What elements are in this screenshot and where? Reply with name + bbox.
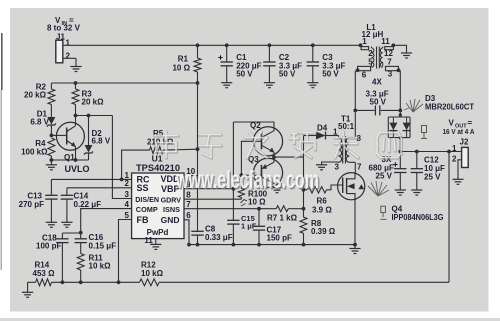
svg-text:6: 6 bbox=[186, 211, 191, 220]
svg-text:6.8 V: 6.8 V bbox=[30, 118, 49, 127]
svg-text:6: 6 bbox=[362, 71, 367, 80]
watermark glyph 1 bbox=[154, 132, 179, 159]
watermark glyph 2 bbox=[199, 135, 222, 159]
wire COMP pin4 bbox=[81, 209, 132, 233]
bottom scan band bbox=[0, 318, 500, 321]
svg-text:25 V: 25 V bbox=[424, 173, 441, 182]
Q3 emitter diag bbox=[262, 162, 275, 169]
ground at L1 pin 11 bbox=[401, 53, 412, 58]
wire J1 pin2 down bbox=[75, 58, 77, 66]
watermark chinese glyph row bbox=[154, 132, 402, 159]
Q3 base bar bbox=[261, 165, 263, 181]
wire base to Q3 bbox=[241, 174, 261, 176]
node VIN/R1 bbox=[196, 43, 200, 47]
resistor R12 bbox=[140, 279, 160, 286]
L1 core line 1 bbox=[376, 47, 378, 69]
node D3 top bbox=[399, 113, 402, 116]
node C8/bus bbox=[196, 243, 200, 247]
capacitor C17 bbox=[258, 209, 260, 227]
annotation arrow at R100 bbox=[241, 200, 248, 204]
svg-text:10 Ω: 10 Ω bbox=[248, 198, 266, 207]
wire D4/emitter/gate column bbox=[303, 136, 305, 209]
L1 top-left terminal bbox=[385, 47, 394, 50]
node Q2/Q3 bases bbox=[240, 173, 244, 177]
wire bus R12 to Vout riser bbox=[159, 281, 449, 283]
wire UVLO emitter bus bbox=[51, 159, 88, 161]
svg-text:0.39 Ω: 0.39 Ω bbox=[311, 227, 336, 236]
Q2 base bar bbox=[261, 133, 263, 149]
Q4 channel bar bbox=[346, 178, 348, 194]
capacitor C2 bbox=[268, 45, 270, 62]
wire Q1 base bbox=[51, 134, 66, 136]
resistor R11 bbox=[77, 254, 84, 271]
L1 phase dot pin6 bbox=[356, 68, 360, 72]
svg-text:FB: FB bbox=[137, 215, 149, 225]
wire Q2 collector up bbox=[273, 122, 275, 131]
resistor R1 bbox=[197, 45, 199, 58]
svg-text:270 pF: 270 pF bbox=[19, 200, 44, 209]
svg-text:DIS/EN: DIS/EN bbox=[135, 196, 159, 204]
ground at C13 bbox=[46, 222, 57, 227]
svg-text:7: 7 bbox=[387, 58, 392, 67]
wire R1 to VDD node bbox=[197, 83, 199, 149]
svg-text:0.22 μF: 0.22 μF bbox=[74, 200, 102, 209]
svg-text:10 kΩ: 10 kΩ bbox=[141, 269, 164, 278]
wire Q1 collector to DIS riser bbox=[76, 115, 113, 117]
node Q2/Q3 emitters bbox=[272, 155, 276, 159]
svg-text:3: 3 bbox=[335, 163, 340, 172]
capacitor C18 bbox=[61, 233, 63, 239]
wire VIN top rail bbox=[67, 44, 361, 46]
svg-text:16 V at 4 A: 16 V at 4 A bbox=[443, 127, 475, 136]
Q1 collector diag bbox=[67, 126, 76, 132]
wire UVLO sense rail bbox=[51, 82, 197, 84]
svg-text:0.15 μF: 0.15 μF bbox=[89, 241, 117, 250]
resistor R7 bbox=[276, 206, 288, 212]
node R7/R8 bbox=[302, 207, 306, 211]
transistor Q3 bbox=[253, 158, 282, 187]
node C15/bus bbox=[232, 243, 236, 247]
svg-text:MBR20L60CT: MBR20L60CT bbox=[425, 102, 474, 111]
annotation starburst at D3 bbox=[404, 99, 423, 112]
Q1 base bar bbox=[66, 128, 68, 145]
Q2 emitter diag bbox=[262, 145, 275, 152]
wire L1 pin11 to ground bbox=[393, 45, 406, 53]
svg-text:100 kΩ: 100 kΩ bbox=[21, 148, 48, 157]
wire VBP riser to Q2 collector rail bbox=[232, 122, 234, 189]
svg-text:3: 3 bbox=[125, 190, 130, 199]
transistor Q1 bbox=[56, 122, 84, 150]
ground at Q3 collector bbox=[271, 188, 282, 193]
svg-text:5: 5 bbox=[125, 211, 130, 220]
capacitor C1 bbox=[226, 45, 228, 62]
node Q1 emitter bottom bbox=[74, 158, 78, 162]
resistor R6 bbox=[304, 189, 308, 191]
D3 pkg left bbox=[387, 117, 389, 138]
node R6 tap bbox=[302, 188, 306, 192]
wire Q1 emitter down bbox=[75, 147, 77, 161]
Q4 arrow bbox=[358, 184, 364, 189]
wire Q2 collector rail bbox=[233, 121, 274, 123]
svg-text:453 Ω: 453 Ω bbox=[33, 269, 56, 278]
ground at C14 bbox=[61, 222, 72, 227]
node riser/4X cap right bbox=[398, 109, 402, 113]
svg-text:50 V: 50 V bbox=[236, 70, 253, 79]
wire VBP pin9 bbox=[184, 188, 233, 190]
annotation starburst at Q4 bbox=[368, 181, 389, 196]
node D2 top bbox=[87, 114, 91, 118]
wire L1 pin6 riser to T1 bbox=[354, 71, 356, 138]
watermark glyph 6 bbox=[377, 133, 402, 159]
node D3 bottom bbox=[399, 136, 402, 139]
svg-text:50 V: 50 V bbox=[322, 70, 339, 79]
wire Vout rail bbox=[400, 151, 461, 153]
svg-text:25 V: 25 V bbox=[376, 172, 393, 181]
node R3/Q1 collector bbox=[74, 114, 78, 118]
capacitor 3X 680uF bank bbox=[399, 152, 401, 169]
node FB/bus bbox=[117, 280, 121, 284]
svg-text:6.8 V: 6.8 V bbox=[92, 137, 111, 146]
node VIN/C1 bbox=[225, 43, 229, 47]
page edge artifact line bbox=[1, 33, 3, 90]
wire T1 pin3 to ground bbox=[322, 162, 339, 165]
ground at Q4 source bbox=[349, 249, 360, 254]
wire Q4 source down bbox=[354, 200, 356, 245]
svg-text:R7 1 kΩ: R7 1 kΩ bbox=[267, 214, 298, 223]
wire UVLO to DIS/EN pin 3 bbox=[112, 116, 131, 199]
svg-text:IPP084N06L3G: IPP084N06L3G bbox=[392, 213, 444, 222]
svg-text:50 V: 50 V bbox=[279, 70, 296, 79]
ground at J1 pin 2 bbox=[70, 67, 81, 72]
D3 diode A bbox=[389, 130, 397, 132]
wire analog ground bus bbox=[189, 244, 354, 246]
node riser/4X cap bbox=[353, 109, 357, 113]
node VIN/C2 bbox=[268, 43, 272, 47]
node VBP/C15/driver rail bbox=[232, 187, 236, 191]
svg-text:11: 11 bbox=[144, 236, 153, 245]
wire Q1 collector up bbox=[75, 116, 77, 126]
svg-text:D4: D4 bbox=[317, 123, 328, 132]
wire RC pin1 bbox=[51, 178, 131, 180]
wire VDD column down to C8 bbox=[197, 149, 199, 231]
diode D4 bbox=[304, 135, 317, 137]
ground at C12 bbox=[411, 190, 422, 195]
Q4 source bbox=[347, 194, 355, 200]
L1 phase dot pin3 bbox=[397, 68, 401, 72]
resistor R4 bbox=[48, 138, 55, 156]
T1 core line 2 bbox=[345, 136, 347, 164]
wire ISNS pin7 bbox=[184, 208, 259, 210]
capacitor C14 bbox=[66, 188, 68, 196]
MOSFET Q4 bbox=[338, 173, 365, 200]
resistor R100 bbox=[238, 189, 244, 198]
svg-text:2: 2 bbox=[66, 52, 71, 61]
ground at T1 pin 3 bbox=[316, 165, 327, 170]
svg-text:J2: J2 bbox=[460, 138, 469, 147]
wire T1 pin7 stub bbox=[349, 161, 355, 163]
svg-text:10 Ω: 10 Ω bbox=[172, 64, 190, 73]
wire T1 pin7 to Q4 drain bbox=[354, 162, 356, 172]
svg-text:www.elecfans.com: www.elecfans.com bbox=[175, 166, 319, 194]
node COMP/C16/C18 bbox=[79, 231, 83, 235]
svg-text:1: 1 bbox=[362, 37, 367, 46]
L1 phase dot pin1 bbox=[359, 43, 363, 47]
svg-text:1: 1 bbox=[452, 144, 457, 153]
annotation mini symbol near D3 bbox=[421, 126, 427, 139]
annotation mini symbol near Q4 bbox=[381, 206, 387, 219]
L1 top-right terminal bbox=[358, 66, 371, 70]
wire COMP to C18 bbox=[62, 232, 80, 234]
svg-text:11: 11 bbox=[381, 37, 390, 46]
svg-text:7: 7 bbox=[186, 200, 191, 209]
wire Vout feedback riser bbox=[448, 152, 450, 283]
svg-text:Q1: Q1 bbox=[64, 153, 75, 162]
node Vout/feedback bbox=[447, 150, 451, 154]
Q1 emitter diag bbox=[67, 141, 76, 147]
L1 core line 2 bbox=[378, 47, 380, 69]
capacitor C3 bbox=[312, 45, 314, 62]
watermark glyph 4 bbox=[290, 133, 316, 159]
node R8/bus bbox=[302, 243, 306, 247]
svg-text:4X: 4X bbox=[372, 78, 382, 87]
resistor R2 bbox=[50, 83, 52, 89]
wire GDRV pin8 bbox=[184, 198, 241, 200]
node Vout/680uF bbox=[398, 150, 402, 154]
svg-text:GDRV: GDRV bbox=[161, 196, 182, 204]
node ISNS/C17/R7 bbox=[257, 207, 261, 211]
resistor R8 bbox=[300, 217, 307, 233]
capacitor C13 bbox=[50, 179, 52, 195]
svg-text:4: 4 bbox=[125, 200, 130, 209]
D3 cathode rail bbox=[388, 137, 410, 139]
svg-text:R1: R1 bbox=[178, 55, 189, 64]
node C18/bus bbox=[61, 280, 65, 284]
wire base bus to Q2 bbox=[241, 141, 261, 175]
svg-text:3.9 Ω: 3.9 Ω bbox=[312, 205, 332, 214]
zener diode D1 bbox=[47, 117, 55, 125]
wire Q3 collector down bbox=[273, 184, 275, 188]
wire emitters to gate column bbox=[274, 156, 304, 158]
wire GND pin6 down bbox=[184, 220, 189, 245]
svg-text:COMP: COMP bbox=[136, 205, 158, 214]
svg-text:150 pF: 150 pF bbox=[267, 234, 292, 243]
wire T1 pin8 to riser bbox=[349, 137, 355, 139]
watermark glyph 3 bbox=[245, 132, 268, 159]
ground at C2 bbox=[264, 83, 275, 88]
U1 pin 11 ground bbox=[155, 239, 157, 245]
svg-text:SS: SS bbox=[137, 183, 149, 193]
wire bus left down bbox=[27, 282, 29, 292]
capacitor C15 bbox=[232, 189, 234, 221]
L1 bottom-left terminal bbox=[386, 66, 399, 70]
D3 anode rail bbox=[388, 116, 410, 118]
svg-text:50 V: 50 V bbox=[370, 97, 387, 106]
D3 diode B bbox=[403, 130, 411, 132]
J1 pin2 wire bbox=[63, 57, 76, 59]
svg-text:GND: GND bbox=[161, 215, 180, 225]
L1 left winding bbox=[380, 48, 382, 67]
svg-text:50:1: 50:1 bbox=[338, 122, 355, 131]
svg-text:2: 2 bbox=[125, 179, 130, 188]
wire FB pin5 to divider bbox=[119, 220, 132, 283]
capacitor C8 bbox=[191, 231, 203, 235]
node Vout/C12 bbox=[415, 150, 419, 154]
wire J2 pin2 to ground bbox=[458, 160, 462, 180]
Q2 collector diag bbox=[262, 131, 275, 138]
wire SS pin2 bbox=[67, 187, 132, 189]
svg-text:UVLO: UVLO bbox=[65, 164, 90, 174]
node R4 bottom bbox=[50, 158, 54, 162]
svg-text:0.33 μF: 0.33 μF bbox=[205, 233, 233, 242]
svg-text:7: 7 bbox=[357, 163, 362, 172]
wire L1 pin3 riser to D3 bbox=[399, 71, 401, 117]
capacitor C16 bbox=[80, 233, 82, 239]
wire feedback bottom bus bbox=[28, 281, 36, 283]
node rail/R1 bottom bbox=[196, 81, 200, 85]
svg-text:20 kΩ: 20 kΩ bbox=[82, 98, 105, 107]
L1 phase dot pin11 bbox=[391, 43, 395, 47]
op-amp U1 TPS40210 controller bbox=[132, 173, 184, 239]
node C17/bus bbox=[257, 243, 261, 247]
T1 core line 1 bbox=[342, 136, 344, 164]
svg-text:1: 1 bbox=[333, 128, 338, 137]
node VDD/R5/R1 bbox=[196, 147, 200, 151]
svg-text:8 to 32 V: 8 to 32 V bbox=[47, 24, 81, 33]
svg-text:10 kΩ: 10 kΩ bbox=[89, 261, 112, 270]
Q3 collector diag bbox=[262, 177, 275, 184]
node R11/bus bbox=[79, 280, 83, 284]
Q4 gate bar bbox=[342, 178, 344, 194]
ground at R14 bbox=[22, 292, 33, 297]
ground at C3 bbox=[307, 83, 318, 88]
svg-text:R6: R6 bbox=[317, 197, 328, 206]
node VIN/C3 bbox=[311, 43, 315, 47]
svg-text:TPS40210: TPS40210 bbox=[136, 163, 180, 173]
transistor Q2 bbox=[253, 127, 282, 156]
D3 pkg right bbox=[409, 117, 411, 138]
ground at J2 pin 2 bbox=[452, 179, 463, 184]
wire VDD pin10 stub bbox=[191, 175, 198, 177]
J1 pin1 stub bbox=[63, 44, 67, 46]
ground at C1 bbox=[221, 83, 232, 88]
svg-text:100 pF: 100 pF bbox=[36, 241, 61, 250]
node D1/R4/Q1 base bbox=[50, 134, 54, 138]
wire R6 to Q4 gate bbox=[327, 185, 343, 190]
ground UVLO bbox=[46, 165, 57, 170]
resistor R5 bbox=[122, 150, 150, 179]
connector J1 bbox=[56, 40, 63, 63]
node rail/R3 bbox=[74, 81, 78, 85]
resistor R14 bbox=[36, 279, 52, 286]
svg-text:1: 1 bbox=[66, 39, 71, 48]
ground at 680uF bank bbox=[395, 190, 406, 195]
watermark glyph 5 bbox=[335, 132, 359, 159]
capacitor C12 bbox=[416, 152, 418, 169]
capacitor 4X 3.3uF bank bbox=[355, 109, 374, 111]
Q4 drain bbox=[347, 173, 355, 179]
resistor R3 bbox=[75, 83, 77, 89]
svg-text:20 kΩ: 20 kΩ bbox=[24, 91, 47, 100]
svg-text:2: 2 bbox=[452, 155, 457, 164]
svg-text:ISNS: ISNS bbox=[163, 205, 180, 214]
node pin6/bus bbox=[187, 243, 191, 247]
wire D3 to Vout rail bbox=[399, 138, 401, 152]
wire bus R14 to R12 bbox=[52, 281, 140, 283]
node RC/R5 bbox=[120, 178, 124, 182]
svg-text:U1: U1 bbox=[152, 154, 163, 164]
node Q4 source/bus bbox=[353, 243, 357, 247]
